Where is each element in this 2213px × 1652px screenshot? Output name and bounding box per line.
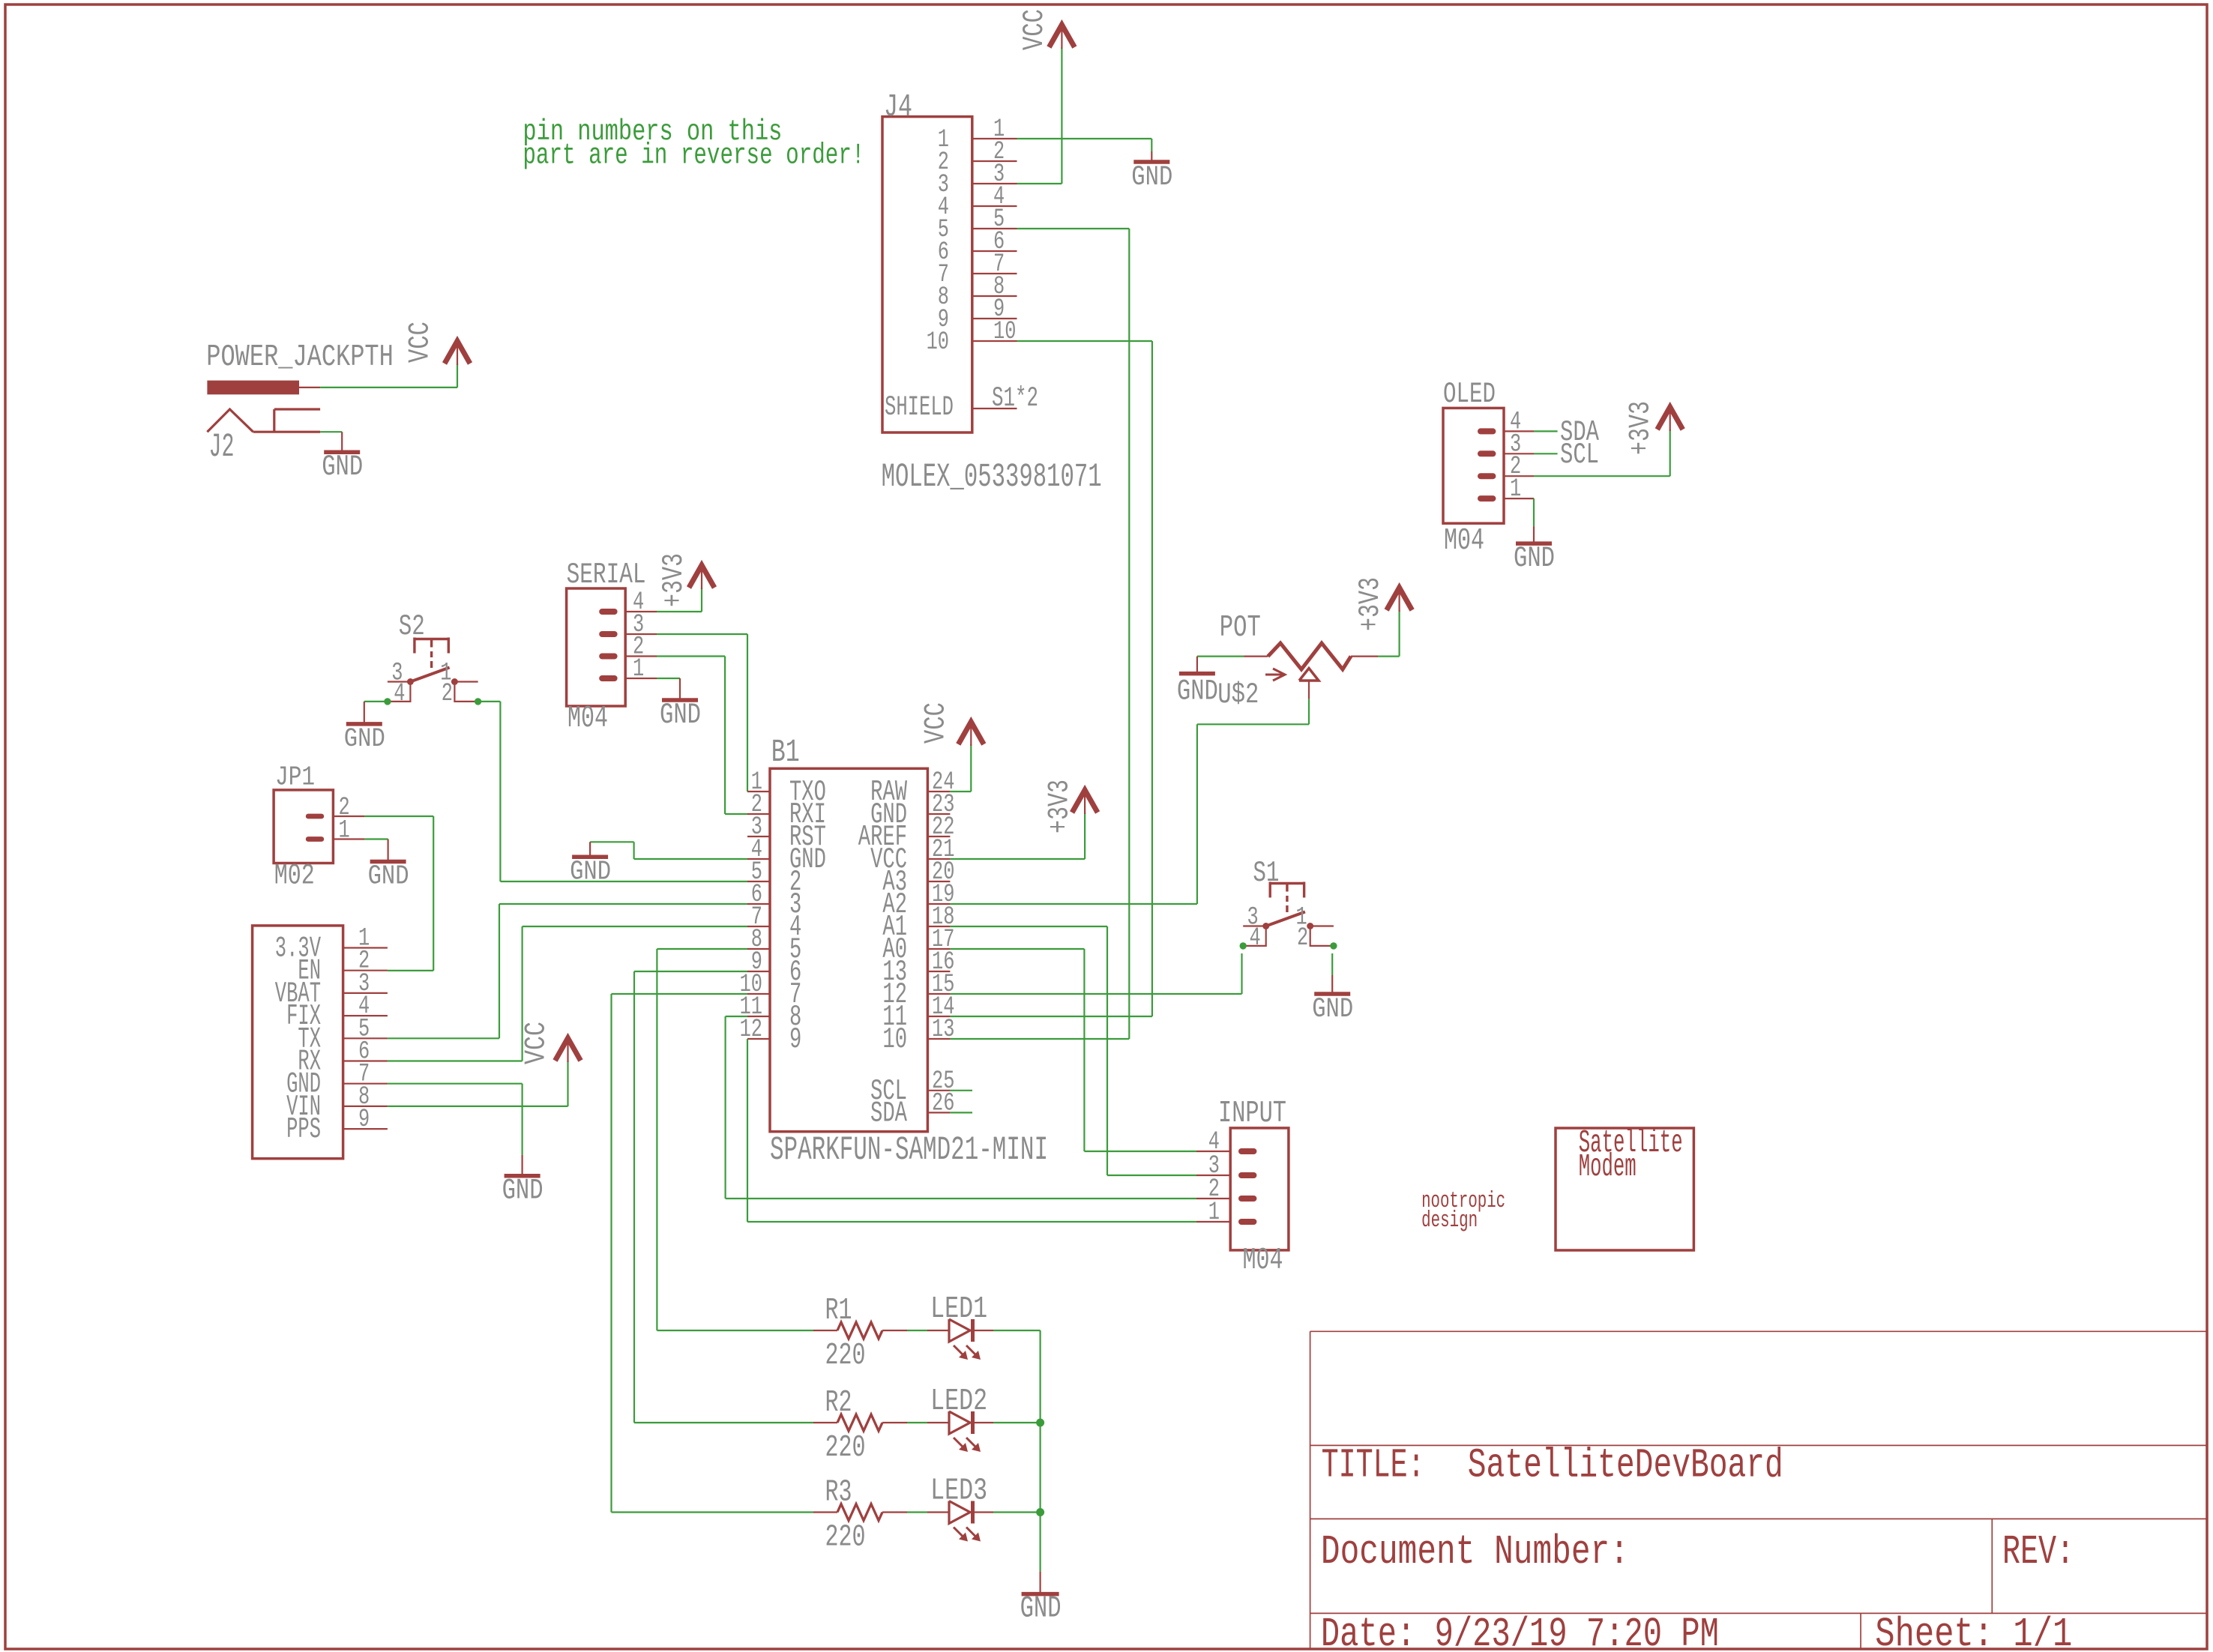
svg-text:Modem: Modem — [1579, 1149, 1637, 1185]
svg-text:REV:: REV: — [2002, 1528, 2074, 1576]
svg-text:R1: R1 — [825, 1294, 852, 1328]
svg-text:GND: GND — [1177, 675, 1218, 708]
svg-text:12: 12 — [740, 1015, 762, 1044]
svg-text:Document Number:: Document Number: — [1321, 1528, 1629, 1576]
svg-text:MOLEX_0533981071: MOLEX_0533981071 — [882, 459, 1102, 496]
svg-text:1: 1 — [1510, 474, 1521, 504]
svg-text:4: 4 — [1250, 923, 1261, 953]
svg-text:LED2: LED2 — [930, 1384, 987, 1419]
svg-text:9: 9 — [358, 1105, 370, 1134]
svg-text:220: 220 — [825, 1339, 866, 1373]
svg-text:10: 10 — [927, 328, 949, 357]
svg-text:S1: S1 — [1253, 856, 1279, 890]
svg-text:Sheet: 1/1: Sheet: 1/1 — [1875, 1611, 2072, 1652]
svg-text:SDA: SDA — [870, 1096, 907, 1130]
svg-text:GND: GND — [1131, 162, 1172, 193]
svg-text:GND: GND — [368, 861, 409, 892]
svg-text:design: design — [1421, 1208, 1478, 1234]
svg-text:M04: M04 — [1243, 1243, 1283, 1278]
svg-text:2: 2 — [1297, 923, 1308, 953]
svg-text:+3V3: +3V3 — [1624, 401, 1658, 455]
svg-text:TITLE:: TITLE: — [1322, 1442, 1425, 1489]
svg-text:JP1: JP1 — [275, 762, 315, 792]
svg-text:GND: GND — [1514, 541, 1555, 575]
svg-text:GND: GND — [570, 856, 611, 887]
svg-text:VCC: VCC — [1017, 9, 1051, 50]
svg-text:4: 4 — [394, 679, 405, 708]
svg-text:POWER_JACKPTH: POWER_JACKPTH — [206, 340, 394, 375]
svg-text:GND: GND — [502, 1174, 544, 1208]
svg-text:M04: M04 — [1444, 524, 1484, 558]
svg-text:1: 1 — [339, 816, 350, 845]
svg-text:S2: S2 — [399, 609, 425, 643]
svg-text:POT: POT — [1220, 611, 1261, 645]
svg-text:SHIELD: SHIELD — [885, 392, 954, 423]
svg-text:U$2: U$2 — [1217, 678, 1259, 711]
svg-text:R3: R3 — [825, 1476, 852, 1510]
svg-text:GND: GND — [1020, 1592, 1062, 1627]
svg-text:GND: GND — [322, 450, 363, 483]
svg-text:R2: R2 — [825, 1386, 852, 1420]
svg-text:M02: M02 — [274, 860, 315, 893]
svg-text:PPS: PPS — [286, 1112, 321, 1146]
svg-text:Date: 9/23/19 7:20 PM: Date: 9/23/19 7:20 PM — [1321, 1611, 1719, 1652]
svg-text:J4: J4 — [884, 89, 912, 125]
svg-text:13: 13 — [932, 1015, 954, 1044]
svg-text:SPARKFUN-SAMD21-MINI: SPARKFUN-SAMD21-MINI — [770, 1132, 1048, 1169]
svg-text:M04: M04 — [567, 702, 608, 736]
svg-text:26: 26 — [932, 1088, 954, 1118]
svg-text:10: 10 — [882, 1022, 907, 1056]
svg-text:OLED: OLED — [1443, 377, 1496, 411]
svg-text:SCL: SCL — [1560, 438, 1599, 471]
svg-text:1: 1 — [1208, 1198, 1220, 1227]
svg-text:VCC: VCC — [919, 702, 953, 744]
svg-text:+3V3: +3V3 — [1353, 577, 1387, 631]
svg-text:LED3: LED3 — [930, 1474, 987, 1509]
svg-text:SatelliteDevBoard: SatelliteDevBoard — [1468, 1442, 1783, 1489]
svg-text:9: 9 — [789, 1022, 801, 1056]
svg-text:GND: GND — [344, 723, 385, 754]
svg-text:+3V3: +3V3 — [657, 553, 690, 607]
svg-text:VCC: VCC — [403, 322, 437, 363]
svg-text:1: 1 — [633, 654, 644, 684]
svg-text:220: 220 — [825, 1431, 866, 1465]
svg-text:B1: B1 — [771, 735, 800, 771]
svg-text:GND: GND — [1312, 994, 1353, 1025]
svg-text:part are in reverse order!: part are in reverse order! — [523, 139, 864, 172]
svg-text:220: 220 — [825, 1521, 866, 1555]
svg-text:LED1: LED1 — [930, 1292, 987, 1327]
svg-text:SERIAL: SERIAL — [567, 558, 646, 591]
svg-text:J2: J2 — [209, 429, 235, 466]
svg-text:GND: GND — [660, 698, 701, 732]
svg-text:S1*2: S1*2 — [992, 383, 1038, 414]
svg-text:+3V3: +3V3 — [1043, 780, 1077, 833]
svg-text:INPUT: INPUT — [1218, 1097, 1286, 1131]
svg-text:VCC: VCC — [519, 1022, 553, 1064]
svg-text:2: 2 — [442, 679, 453, 708]
svg-text:10: 10 — [993, 317, 1016, 346]
